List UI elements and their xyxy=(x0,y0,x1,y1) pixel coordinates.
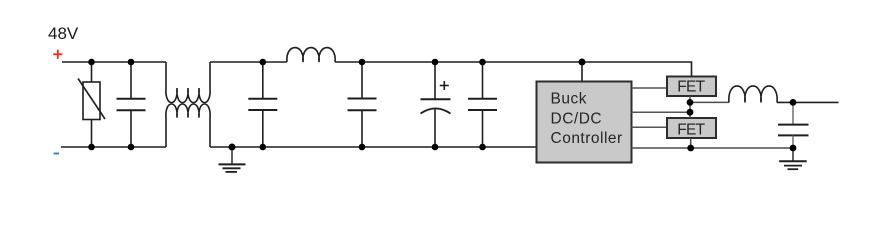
varistor RV1 xyxy=(78,62,105,147)
svg-text:Controller: Controller xyxy=(551,130,623,147)
wire bottom rail left section xyxy=(61,146,166,148)
node C1 bottom xyxy=(128,144,135,151)
node C5 bottom xyxy=(479,144,486,151)
node C1 top xyxy=(128,59,135,66)
junction dots switch node and output xyxy=(687,99,797,151)
inductor L3 output xyxy=(729,86,777,103)
polarity label + of C4 xyxy=(440,81,449,90)
wire top rail left section xyxy=(62,61,166,63)
capacitor C1 xyxy=(117,62,146,147)
node C4 bottom xyxy=(432,144,439,151)
node C4 top xyxy=(432,59,439,66)
capacitor C5 xyxy=(468,62,497,147)
wire switch-node sense from controller xyxy=(632,111,691,113)
ground G2 xyxy=(779,148,807,169)
junction dots bottom rail xyxy=(88,144,486,151)
node Q2 ground xyxy=(687,145,694,152)
node varistor top xyxy=(88,59,95,66)
polarized capacitor C4 xyxy=(421,62,451,147)
capacitor C6 output xyxy=(778,102,809,148)
wire output lead xyxy=(777,101,839,103)
svg-text:FET: FET xyxy=(677,121,705,138)
wire controller Vin stub xyxy=(581,62,583,82)
op-amp U1 Buck DC/DC Controller box xyxy=(537,82,632,163)
wire switch node to inductor xyxy=(690,101,729,103)
wire switch node vertical Q1 to Q2 xyxy=(689,96,691,118)
node C2 bottom xyxy=(260,144,267,151)
wire top rail to FET1 xyxy=(335,62,692,77)
svg-text:Buck: Buck xyxy=(551,91,587,108)
transistor Q2 FET low-side box xyxy=(667,118,716,138)
wire bottom rail right section xyxy=(632,147,794,149)
node controller Vin xyxy=(579,59,586,66)
node C5 top xyxy=(479,59,486,66)
node C3 top xyxy=(359,59,366,66)
ground G1 xyxy=(219,147,246,172)
positive terminal + xyxy=(53,50,62,59)
wire gate drive to FET2 xyxy=(632,126,668,128)
svg-text:48V: 48V xyxy=(48,24,79,43)
svg-text:DC/DC: DC/DC xyxy=(551,110,603,127)
wire gate drive to FET1 xyxy=(632,87,668,89)
node C2 top xyxy=(260,59,267,66)
capacitor C3 xyxy=(348,62,377,147)
wire Q2 source to ground rail xyxy=(690,138,692,148)
node output xyxy=(790,99,797,106)
negative terminal - xyxy=(54,153,60,155)
node varistor bottom xyxy=(88,144,95,151)
node switch upper xyxy=(687,99,694,106)
capacitor C2 xyxy=(248,62,277,147)
transistor Q1 FET high-side box xyxy=(667,77,716,97)
node output ground xyxy=(790,145,797,152)
wire top rail middle section xyxy=(210,61,287,63)
common-mode choke L1 top winding xyxy=(166,62,210,103)
inductor L2 xyxy=(287,48,335,62)
wire bottom rail right of choke xyxy=(210,146,537,148)
node C3 bottom xyxy=(359,144,366,151)
node switch lower xyxy=(687,109,694,116)
svg-text:FET: FET xyxy=(677,78,705,95)
junction dots top rail xyxy=(88,59,585,66)
common-mode choke L1 bottom winding xyxy=(166,104,210,147)
node ground G1 xyxy=(229,144,236,151)
